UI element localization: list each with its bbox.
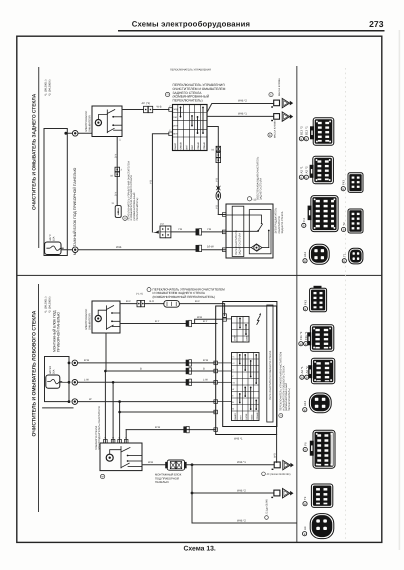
connector A2 (top) — [310, 156, 334, 183]
front switch note block (3 lines) — [153, 288, 226, 299]
internal wiring — [226, 215, 262, 223]
svg-text:В: В — [305, 308, 307, 311]
ground 1 circled label — [269, 93, 273, 97]
svg-text:НИЗК: НИЗК — [245, 413, 248, 419]
table left pin 2 with wire down to relay — [169, 132, 173, 136]
washer switch box — [115, 206, 121, 218]
svg-text:A2 *2: A2 *2 — [305, 366, 309, 373]
svg-text:Y-B: Y-B — [178, 228, 182, 231]
svg-text:*1: (09.2001-): *1: (09.2001-) — [45, 296, 48, 313]
svg-text:ПЕРЕКЛЮЧАТЕЛЬ): ПЕРЕКЛЮЧАТЕЛЬ) — [288, 388, 291, 411]
svg-text:В: В — [300, 343, 302, 346]
big box left pins — [214, 361, 218, 365]
pair connector — [186, 320, 189, 326]
connector T1 small oval (top right) — [349, 248, 363, 264]
X junction — [217, 187, 220, 190]
svg-text:F11 *1: F11 *1 — [304, 331, 308, 340]
svg-text:ОМЫВАТЕЛЯ: ОМЫВАТЕЛЯ — [89, 313, 92, 330]
top section label rule — [37, 67, 40, 248]
svg-text:ПЕРЕКЛЮЧАТЕЛЬ): ПЕРЕКЛЮЧАТЕЛЬ) — [173, 99, 203, 103]
circled symbol of note — [147, 288, 151, 292]
svg-text:T1: T1 — [343, 253, 347, 257]
svg-text:В: В — [343, 260, 345, 263]
connector small T (top right) — [348, 173, 363, 193]
svg-text:В: В — [303, 225, 305, 228]
pump bottom drop + bus wire 2 (y371) — [106, 333, 216, 371]
washer pump motor (front) — [92, 301, 120, 333]
svg-text:B-R: B-R — [150, 300, 155, 303]
connector F6 big (bottom) — [310, 430, 335, 468]
svg-text:*1: (09.2001-): *1: (09.2001-) — [45, 79, 48, 96]
svg-text:16-W: 16-W — [207, 244, 214, 248]
table right exit down to relay — [207, 127, 218, 215]
connector A13 oval (bottom) — [309, 393, 331, 413]
front wiper big box A (relay) — [216, 306, 277, 435]
svg-text:Y-B: Y-B — [216, 205, 219, 209]
svg-text:В-W: В-W — [155, 426, 161, 429]
svg-text:В-Y: В-Y — [155, 320, 160, 323]
internal fuse connections — [60, 381, 69, 383]
svg-text:ВЫКЛ: ВЫКЛ — [234, 413, 237, 420]
svg-text:ЗАДНЕГО СТЕКЛА: ЗАДНЕГО СТЕКЛА — [239, 233, 242, 255]
motor top pins — [104, 439, 108, 443]
svg-text:B-R: B-R — [126, 300, 131, 303]
label A12 — [303, 259, 307, 263]
variable resistor arrow (intermittent) — [257, 316, 260, 325]
connector F11 (bottom) — [307, 325, 334, 351]
svg-text:В: В — [304, 409, 306, 412]
internal pin wires to table — [218, 317, 232, 401]
circled symbol of washer switch — [123, 216, 127, 220]
svg-text:(КОМБИНИРОВАННЫЙ ПЕРЕКЛЮЧАТЕЛЬ: (КОМБИНИРОВАННЫЙ ПЕРЕКЛЮЧАТЕЛЬ) — [153, 295, 215, 299]
washer pump motor (rear) — [92, 106, 122, 137]
bottom row rotated labels — [174, 142, 206, 150]
inner relay narrow box — [267, 305, 273, 422]
svg-text:МАССА КУЗОВА: МАССА КУЗОВА — [274, 120, 277, 138]
wire fuse to relay box — [61, 249, 196, 251]
svg-text:ПОД ПРИБОРНОЙ: ПОД ПРИБОРНОЙ — [155, 476, 179, 480]
ground wire continues — [186, 464, 274, 466]
wire table to washer relay (left drop) — [152, 134, 168, 232]
svg-text:В: В — [304, 503, 306, 506]
svg-text:ЗАД: ЗАД — [173, 108, 178, 111]
svg-text:15А: 15А — [52, 236, 55, 241]
relay box left pins — [222, 213, 226, 217]
svg-text:ИНТ: ИНТ — [240, 414, 243, 419]
wire pump top to switch box — [120, 303, 137, 305]
table left pin 7 — [169, 108, 173, 112]
svg-text:W: W — [232, 388, 234, 391]
svg-text:W-B *1: W-B *1 — [237, 460, 246, 464]
svg-text:W-B *2: W-B *2 — [237, 518, 246, 522]
svg-text:B-W: B-W — [84, 359, 90, 362]
svg-text:B-W: B-W — [203, 359, 209, 362]
svg-text:ПЕРЕКЛЮЧАТЕЛЬ УПРАВЛЕНИЯ: ПЕРЕКЛЮЧАТЕЛЬ УПРАВЛЕНИЯ — [170, 69, 211, 72]
svg-text:T2: T2 — [342, 222, 346, 226]
svg-text:ЗАКР: ЗАКР — [246, 335, 249, 341]
svg-text:B13 *2: B13 *2 — [300, 126, 304, 135]
svg-text:W-B *1: W-B *1 — [234, 437, 243, 440]
rear wiper relay+motor box — [226, 204, 273, 258]
label T3 — [341, 187, 345, 191]
svg-text:В: В — [305, 343, 307, 346]
svg-text:ОМЫВ: ОМЫВ — [203, 142, 206, 150]
svg-text:*2: (04.2000-): *2: (04.2000-) — [49, 79, 52, 96]
svg-text:В: В — [301, 176, 303, 179]
svg-text:В: В — [343, 229, 345, 232]
label T2 — [342, 227, 346, 231]
label F43 (bottom) — [303, 307, 307, 311]
inline connector AC — [144, 106, 148, 112]
svg-text:W-B: W-B — [157, 106, 162, 109]
jog into box pin — [192, 319, 223, 323]
motor symbol — [226, 247, 251, 249]
ground 1 (W-B *2) — [271, 98, 293, 107]
table contact arrows — [181, 107, 204, 134]
svg-text:A2 *1: A2 *1 — [300, 366, 304, 373]
svg-text:В: В — [301, 376, 303, 379]
circled M — [100, 474, 104, 478]
ground 2 (bottom) — [271, 489, 293, 499]
svg-text:РЕЛЕ ОЧИСТИТЕЛЯ ЛОБОВОГО СТЕКЛ: РЕЛЕ ОЧИСТИТЕЛЯ ЛОБОВОГО СТЕКЛА — [269, 350, 272, 400]
left header cells glyphs — [173, 108, 178, 136]
wire connector to pair connector — [171, 231, 196, 233]
motor feed verticals — [104, 371, 106, 443]
label F6 — [303, 447, 307, 451]
svg-text:П: П — [167, 93, 169, 97]
label B13 *2 — [299, 137, 303, 141]
rear wiper switch text block — [173, 83, 226, 103]
ground wire 2 — [192, 492, 274, 494]
svg-text:Схема 13.: Схема 13. — [184, 546, 216, 553]
pump right exit wire — [120, 323, 186, 325]
bus wire 5 (y412) — [120, 411, 216, 413]
stacked connector on drop wire — [216, 153, 221, 158]
wire pump to junction block — [67, 132, 92, 134]
front wiper big box B (switch) — [223, 302, 277, 427]
svg-text:A2 *2: A2 *2 — [305, 166, 309, 173]
faint scan fold line — [345, 68, 347, 540]
svg-text:ОЧИСТИТЕЛЬ И ОМЫВАТЕЛЬ ЗАДНЕГО: ОЧИСТИТЕЛЬ И ОМЫВАТЕЛЬ ЗАДНЕГО СТЕКЛА — [31, 93, 37, 210]
bus wire 4 (y401.6) — [78, 401, 216, 403]
svg-text:W-B *2: W-B *2 — [238, 99, 247, 103]
svg-text:F4: F4 — [302, 218, 306, 222]
svg-text:AC (*2): AC (*2) — [142, 102, 151, 105]
svg-text:МАССА КУЗОВА: МАССА КУЗОВА — [278, 78, 281, 96]
svg-text:МОНТАЖНЫЙ БЛОК: МОНТАЖНЫЙ БЛОК — [155, 473, 182, 477]
label F11 *2 — [299, 342, 303, 346]
svg-text:L-W: L-W — [84, 379, 89, 382]
svg-text:A13: A13 — [303, 400, 307, 406]
bus wire 1 (y363) — [78, 362, 216, 364]
svg-text:(*1,*2): (*1,*2) — [136, 293, 143, 296]
svg-text:ВЫС: ВЫС — [251, 414, 254, 419]
svg-text:20A: 20A — [52, 369, 55, 374]
rear wiper motor inner box — [249, 210, 271, 254]
svg-text:В: В — [301, 138, 303, 141]
svg-text:*2: (04.2000-): *2: (04.2000-) — [49, 296, 52, 313]
rear wiper switch table — [173, 105, 208, 151]
svg-text:ОМЫВ: ОМЫВ — [197, 142, 200, 150]
svg-text:B-Y: B-Y — [114, 192, 117, 197]
svg-text:ОМЫВ: ОМЫВ — [180, 142, 183, 150]
svg-text:ЗАДНЕГО СТЕКЛА: ЗАДНЕГО СТЕКЛА — [260, 178, 263, 200]
svg-text:C: C — [270, 94, 272, 97]
svg-text:В: В — [305, 176, 307, 179]
ground 2 (W-B *1) — [271, 112, 293, 121]
label F11 *1 — [304, 342, 308, 346]
connector T2 (bottom) — [311, 484, 332, 507]
svg-text:Схемы электрооборудования: Схемы электрооборудования — [132, 20, 250, 29]
svg-text:T2: T2 — [303, 496, 307, 500]
grommet connector on junction block edge (bottom) — [72, 247, 78, 253]
table arrows — [240, 355, 256, 410]
stub wire below junction box — [43, 407, 73, 409]
label A4 — [303, 532, 307, 536]
ground 2 circled label — [268, 133, 272, 137]
svg-text:ОЧИСТИТЕЛЬ И ОМЫВАТЕЛЬ ЛОБОВОГ: ОЧИСТИТЕЛЬ И ОМЫВАТЕЛЬ ЛОБОВОГО СТЕКЛА — [31, 310, 37, 436]
svg-text:B-Y: B-Y — [114, 154, 117, 159]
svg-text:F43: F43 — [304, 300, 308, 305]
label A2 *1 (bottom) — [300, 375, 304, 379]
svg-text:W-B *2: W-B *2 — [237, 488, 246, 492]
label A13 — [303, 408, 307, 412]
svg-text:P P: P P — [160, 223, 164, 226]
svg-text:В: В — [305, 138, 307, 141]
inline elongated connector — [164, 301, 180, 308]
wire into big box top — [179, 304, 224, 316]
section divider — [17, 275, 382, 276]
connector F43 (bottom) — [310, 286, 327, 312]
svg-text:F11 *2: F11 *2 — [299, 331, 303, 340]
pump bottom pin 1 — [116, 137, 118, 206]
connector A2 (bottom) — [308, 358, 335, 384]
junction block (front, under dash) — [45, 357, 70, 402]
svg-text:Y-B: Y-B — [150, 180, 153, 184]
stacked connector on pump wire — [115, 167, 120, 171]
svg-text:B: B — [203, 367, 205, 370]
svg-text:ОМЫВ: ОМЫВ — [256, 412, 259, 419]
bottom section label rule — [37, 284, 40, 512]
svg-text:W-B: W-B — [116, 245, 122, 249]
svg-text:W-B: W-B — [273, 453, 276, 458]
table right exit W-B *1 — [207, 115, 274, 117]
svg-text:ПРИБОРНОЙ ПАНЕЛЬЮ: ПРИБОРНОЙ ПАНЕЛЬЮ — [56, 311, 61, 352]
pin into small table — [223, 314, 227, 318]
motor ground wire to junction connector — [142, 464, 166, 466]
label B13 *1 — [304, 137, 308, 141]
wire pump to switch table — [122, 109, 144, 111]
fuse WIPER 20A — [46, 375, 60, 388]
svg-text:Y-B: Y-B — [207, 228, 211, 231]
svg-text:ВЫКЛ: ВЫКЛ — [174, 143, 177, 150]
svg-text:В: В — [342, 188, 344, 191]
junction dots on edge — [68, 362, 71, 365]
svg-text:П: П — [280, 415, 282, 418]
junction dot — [64, 132, 67, 135]
label T1 — [342, 259, 346, 263]
box bottom exit to ground 1 — [276, 435, 278, 463]
fuse 15A in junction block — [45, 242, 61, 255]
svg-text:F6: F6 — [303, 442, 307, 446]
front switch big table — [232, 353, 260, 421]
label T2 (bottom) — [303, 502, 307, 506]
svg-text:ВКЛ: ВКЛ — [173, 133, 178, 136]
ground 1 label — [262, 472, 266, 476]
inline connector pair — [137, 301, 141, 307]
ground 1 (bottom) — [272, 460, 294, 470]
grommet connector on junction block edge (top) — [72, 131, 78, 137]
svg-text:A2 *1: A2 *1 — [300, 166, 304, 173]
pair connector on relay wire — [196, 229, 199, 235]
circled note above relay box — [247, 197, 251, 201]
block connector 4-cell — [160, 223, 171, 238]
svg-text:E: E — [269, 134, 271, 137]
bus wire 6 (y429.6) — [126, 429, 216, 431]
junction block box (under dash panel) — [44, 129, 67, 256]
header rule — [118, 30, 385, 32]
svg-text:ВКЛ: ВКЛ — [191, 145, 194, 150]
svg-text:B-R: B-R — [195, 300, 200, 303]
svg-text:В-Y: В-Y — [203, 320, 208, 323]
svg-text:A12: A12 — [303, 251, 307, 257]
rear wiper relay inner box — [232, 206, 244, 256]
svg-text:F43: F43 — [342, 180, 346, 185]
label A2 *2 (bottom) — [305, 375, 309, 379]
pair connector on fuse wire — [196, 245, 226, 251]
label F4 — [302, 223, 306, 227]
svg-text:В: В — [306, 376, 308, 379]
svg-text:В: В — [304, 449, 306, 452]
svg-text:L-W: L-W — [203, 379, 208, 382]
label A2 *1 — [299, 175, 303, 179]
svg-text:ЗАДНЕГО СТЕКЛА: ЗАДНЕГО СТЕКЛА — [281, 211, 284, 233]
X connector on drop wire — [216, 146, 220, 151]
wiper motor (front) — [100, 443, 142, 471]
svg-text:В: В — [304, 533, 306, 536]
svg-text:W-B: W-B — [197, 316, 202, 319]
page header title — [132, 19, 384, 29]
label under connector (3 lines) — [155, 473, 182, 485]
junction block inline connector (2 big cells) — [165, 460, 186, 470]
left col glyphs — [232, 356, 235, 411]
ground wire 3 — [192, 522, 296, 524]
svg-text:JC (до 08.99): JC (до 08.99) — [266, 499, 269, 514]
bus wire 3 (y382) — [78, 381, 216, 383]
svg-text:JC (после 08.99 №1): JC (после 08.99 №1) — [267, 473, 291, 476]
svg-text:МОНТАЖНЫЙ БЛОК ПОД ПРИБОРНОЙ П: МОНТАЖНЫЙ БЛОК ПОД ПРИБОРНОЙ ПАНЕЛЬЮ — [72, 167, 77, 255]
connector column divider — [295, 66, 298, 542]
svg-text:ОТКР: ОТКР — [233, 335, 236, 341]
svg-text:B13 *1: B13 *1 — [305, 126, 309, 135]
svg-text:ОМЫВАТЕЛЯ: ОМЫВАТЕЛЯ — [89, 115, 92, 132]
table right exit W-B *2 — [207, 104, 274, 113]
svg-text:П: П — [124, 216, 126, 220]
svg-text:A4: A4 — [303, 526, 307, 530]
intermittent relay small table — [232, 317, 250, 343]
svg-text:W-B: W-B — [148, 461, 153, 464]
svg-text:ОМ: ОМ — [173, 116, 177, 119]
grommet on drop wire — [216, 192, 221, 200]
label A2 *2 — [304, 175, 308, 179]
arrow into block connector — [152, 230, 158, 233]
svg-text:В: В — [304, 260, 306, 263]
svg-text:Y-B: Y-B — [216, 178, 219, 182]
ground 2 label (rotated) — [265, 516, 269, 520]
connector B13 (top) — [310, 118, 334, 145]
connector A4 round (bottom) — [310, 514, 334, 539]
page edge scan artifact — [399, 30, 401, 550]
svg-text:273: 273 — [369, 19, 384, 29]
svg-text:B: B — [140, 367, 142, 370]
bend into relay box — [218, 214, 226, 216]
connector small T2 (top right) — [348, 209, 363, 233]
svg-text:ЭЛЕКТРОДВИГАТЕЛЬ ОЧИСТИТЕЛЯ: ЭЛЕКТРОДВИГАТЕЛЬ ОЧИСТИТЕЛЯ — [98, 406, 101, 450]
svg-text:ИНТ: ИНТ — [186, 144, 189, 149]
grommets on junction right edge — [72, 360, 78, 366]
connector F4 wide (top) — [308, 196, 339, 232]
bottom row rotated labels — [234, 412, 259, 419]
svg-text:ИНТ: ИНТ — [173, 125, 178, 128]
svg-text:ЛОБОВОГО СТЕКЛА: ЛОБОВОГО СТЕКЛА — [95, 425, 98, 450]
circled symbol of rear switch — [165, 92, 169, 96]
circled symbol of switch label — [279, 414, 283, 418]
svg-text:ПАНЕЛЬЮ: ПАНЕЛЬЮ — [155, 481, 169, 484]
connector A12 oval (top) — [309, 244, 329, 264]
svg-text:W-B *1: W-B *1 — [238, 112, 247, 116]
svg-text:ПЕРЕКЛЮЧАТЕЛЬ): ПЕРЕКЛЮЧАТЕЛЬ) — [136, 198, 139, 221]
drop to lower grounds — [191, 463, 194, 466]
